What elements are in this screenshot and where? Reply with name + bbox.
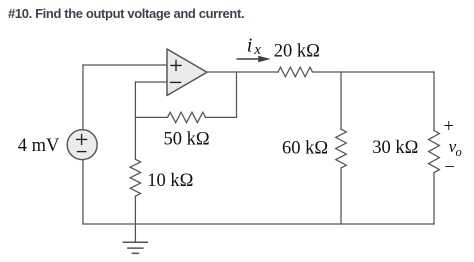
op-amp U1 triangle xyxy=(167,49,207,96)
op-amp - input sign xyxy=(171,81,181,83)
resistor 20k zigzag (series) xyxy=(278,67,313,77)
ground bar 2 xyxy=(128,247,143,249)
wire: feedback horizontal left segment (y=117.4) xyxy=(135,116,167,118)
wire: 30k branch vertical top (x=434) xyxy=(433,72,435,131)
op-amp + input sign xyxy=(171,60,181,70)
source - sign xyxy=(77,151,85,153)
svg-text:−: − xyxy=(445,158,455,178)
ground bar 1 xyxy=(123,241,147,243)
wire: source top vertical (x=83, from top wire to source) xyxy=(82,65,84,130)
svg-text:60 kΩ: 60 kΩ xyxy=(282,138,328,158)
resistor 10k zigzag (vertical) xyxy=(130,159,140,196)
resistor 60k zigzag (vertical) xyxy=(336,129,347,168)
wire: ground stub xyxy=(134,224,136,242)
wire: 60k branch vertical top xyxy=(340,72,342,129)
svg-text:20 kΩ: 20 kΩ xyxy=(274,42,320,62)
voltage source 4mV circle xyxy=(67,130,97,160)
wire: below 10k to bottom wire xyxy=(134,196,136,224)
svg-text:i: i xyxy=(247,35,253,57)
wire: feedback horizontal right segment xyxy=(206,116,237,118)
source + sign xyxy=(77,134,87,144)
svg-text:10 kΩ: 10 kΩ xyxy=(147,171,193,191)
resistor 30k zigzag (vertical) xyxy=(429,131,440,173)
svg-text:+: + xyxy=(444,117,454,137)
svg-text:x: x xyxy=(253,42,261,58)
wire: top horizontal to op-amp + input xyxy=(83,64,167,66)
wire: bottom horizontal rail xyxy=(83,223,434,225)
wire: inverting input horizontal (y=82) xyxy=(135,81,167,83)
title: problem statement xyxy=(8,6,244,21)
ground bar 3 xyxy=(132,252,138,254)
resistor 50k zigzag (feedback) xyxy=(168,112,206,122)
wire: 20k to right node xyxy=(313,71,435,73)
svg-text:50 kΩ: 50 kΩ xyxy=(164,130,210,150)
svg-text:30 kΩ: 30 kΩ xyxy=(372,138,418,158)
wire: op-amp output to 20k xyxy=(207,71,278,73)
wire: inverting node vertical (x=135.4 from y=82 to 10k top) xyxy=(134,82,136,159)
current ix arrow xyxy=(237,58,259,60)
wire: 60k branch vertical bottom xyxy=(340,168,342,224)
svg-text:o: o xyxy=(456,145,462,159)
svg-text:4 mV: 4 mV xyxy=(18,136,60,156)
wire: feedback vertical (x=236.5 up to output) xyxy=(236,72,238,117)
wire: 30k branch vertical bottom xyxy=(433,173,435,224)
wire: source bottom vertical (x=83, source to bottom wire) xyxy=(82,160,84,224)
